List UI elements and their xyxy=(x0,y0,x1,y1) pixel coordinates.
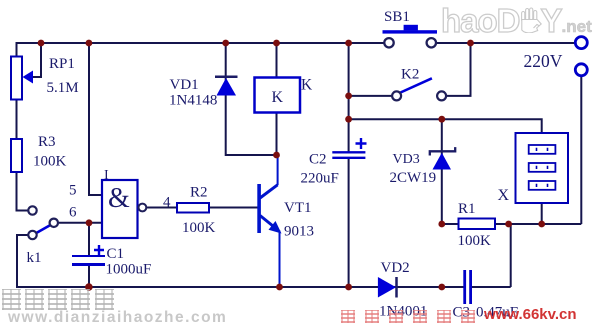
svg-text:100K: 100K xyxy=(458,233,492,249)
svg-text:1N4148: 1N4148 xyxy=(169,93,217,109)
svg-text:&: & xyxy=(108,183,130,214)
svg-text:VD1: VD1 xyxy=(170,77,199,93)
svg-text:220uF: 220uF xyxy=(301,171,339,187)
svg-text:k1: k1 xyxy=(27,250,42,266)
svg-text:4: 4 xyxy=(163,195,171,211)
svg-text:100K: 100K xyxy=(182,220,216,236)
svg-text:I: I xyxy=(104,168,109,183)
svg-text:9013: 9013 xyxy=(284,224,314,240)
svg-text:2CW19: 2CW19 xyxy=(390,170,437,186)
svg-text:RP1: RP1 xyxy=(49,56,75,72)
svg-text:5: 5 xyxy=(69,183,77,199)
svg-text:R3: R3 xyxy=(38,134,56,150)
svg-text:R2: R2 xyxy=(190,185,208,201)
svg-text:5.1M: 5.1M xyxy=(47,80,79,96)
svg-text:VD2: VD2 xyxy=(381,260,410,276)
svg-text:R1: R1 xyxy=(458,201,476,217)
svg-text:SB1: SB1 xyxy=(384,9,410,25)
svg-text:K2: K2 xyxy=(401,67,419,83)
svg-text:K: K xyxy=(301,77,313,94)
svg-text:6: 6 xyxy=(69,205,77,221)
svg-text:VD3: VD3 xyxy=(393,152,420,167)
svg-text:C2: C2 xyxy=(309,152,327,168)
svg-text:220V: 220V xyxy=(524,51,563,71)
svg-text:K: K xyxy=(272,89,284,106)
svg-text:VT1: VT1 xyxy=(284,200,312,216)
svg-text:100K: 100K xyxy=(33,154,67,170)
svg-text:X: X xyxy=(498,187,510,204)
svg-text:1000uF: 1000uF xyxy=(106,262,152,278)
svg-text:C1: C1 xyxy=(107,246,125,262)
